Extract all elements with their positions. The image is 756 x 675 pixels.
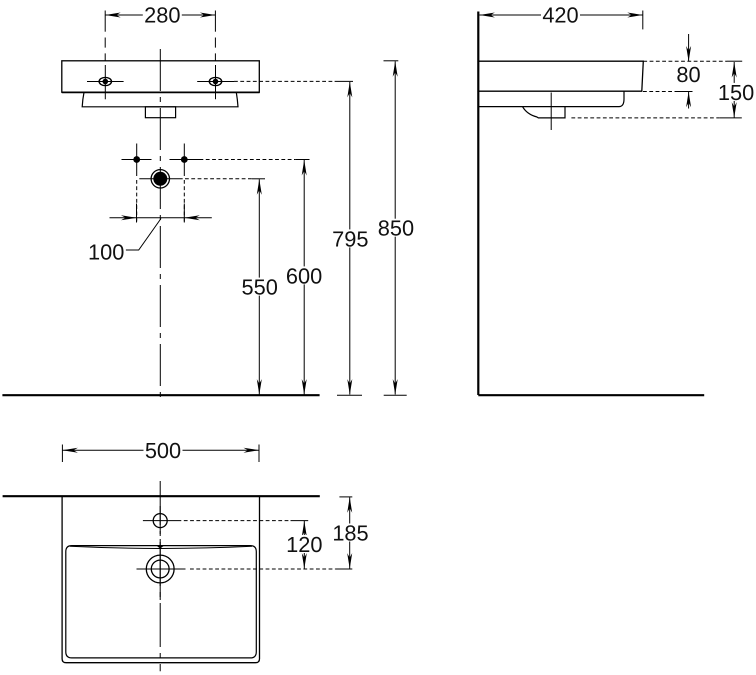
dim 795 line: [349, 82, 351, 395]
side dashed lines: [571, 61, 742, 118]
dim 850 line: [394, 61, 396, 394]
dim 120: [303, 521, 305, 569]
faucet dots: [133, 156, 140, 163]
svg-text:100: 100: [88, 239, 124, 264]
bowl underside curve: [523, 107, 566, 118]
wall line bottom view: [3, 495, 320, 497]
dim 280 line: [105, 14, 215, 16]
svg-text:150: 150: [718, 80, 754, 105]
drain box: [145, 107, 175, 118]
centerline front: [159, 49, 161, 402]
lower tier: [82, 92, 238, 106]
dim 150: [733, 62, 735, 118]
svg-text:600: 600: [286, 263, 322, 288]
drain circles: [146, 555, 174, 583]
dim 100: [110, 204, 212, 251]
inner lip curve: [70, 546, 252, 548]
dim 185: [349, 497, 351, 568]
svg-text:550: 550: [242, 275, 278, 300]
basin front rectangle: [62, 61, 259, 92]
svg-text:280: 280: [144, 2, 180, 27]
mounting hole left: [87, 65, 124, 99]
outer outline: [62, 496, 259, 663]
ground line left: [2, 394, 319, 396]
svg-text:80: 80: [676, 62, 700, 87]
inner rounded rect: [66, 546, 256, 658]
tier2 profile: [478, 91, 624, 106]
dashed links bottom view: [178, 497, 353, 569]
mounting hole right: [197, 65, 234, 99]
svg-text:185: 185: [332, 520, 368, 545]
ground line right: [478, 394, 704, 396]
dim 280 extension lines: [105, 11, 215, 61]
svg-text:795: 795: [332, 226, 368, 251]
dim 80: [688, 34, 690, 62]
dim 500: [62, 445, 259, 463]
svg-text:850: 850: [378, 216, 414, 241]
basin front bottom edge (thicker): [62, 91, 260, 93]
small flow arrow: [156, 545, 164, 548]
dim 420: [479, 14, 642, 16]
centerline bottom view: [159, 481, 161, 671]
faucet hole: [153, 514, 167, 528]
svg-text:120: 120: [286, 532, 322, 557]
dim 550 line: [258, 179, 260, 394]
drain circle front: [151, 170, 169, 188]
dim 600 line: [303, 160, 305, 395]
svg-text:500: 500: [145, 438, 181, 463]
basin side profile: [478, 61, 643, 91]
side drain centerline: [550, 93, 552, 131]
svg-text:420: 420: [542, 2, 578, 27]
dashed links to vertical dims: [185, 81, 353, 178]
wall line: [477, 12, 479, 396]
